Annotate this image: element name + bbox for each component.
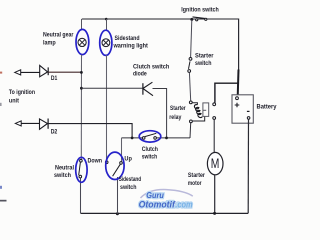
node lamp2 junction — [105, 18, 108, 21]
diode D2 — [40, 119, 49, 130]
watermark guru otomotif logo — [139, 190, 193, 210]
wire lamp1 down line — [80, 55, 82, 160]
scan mark left edge red — [0, 72, 2, 74]
highlight ellipse sidestand switch — [106, 152, 124, 179]
diode D1 — [40, 65, 49, 76]
wire lamp2 top stub — [106, 19, 108, 30]
highlight ellipse neutral switch — [76, 157, 87, 182]
scan mark left edge blue — [0, 186, 2, 189]
highlight ellipse lamp L2 — [100, 30, 112, 55]
svg-text:motor: motor — [188, 180, 202, 187]
label D1 — [51, 75, 58, 82]
svg-text:D1: D1 — [51, 75, 58, 82]
label neutral switch — [54, 165, 74, 179]
node ignition junction — [190, 18, 193, 21]
svg-text:switch: switch — [120, 184, 137, 191]
svg-text:Starter: Starter — [195, 53, 214, 60]
svg-text:lamp: lamp — [43, 39, 56, 46]
svg-text:switch: switch — [54, 172, 71, 179]
svg-text:Starter: Starter — [188, 172, 206, 179]
relay K1 core box — [203, 103, 209, 117]
wire top supply bus — [82, 18, 239, 20]
svg-text:Down: Down — [88, 158, 103, 165]
svg-text:warning light: warning light — [113, 43, 149, 50]
wire right feed down to battery — [237, 19, 240, 97]
motor M1 starter motor — [207, 152, 223, 174]
node sidestand ground junction — [116, 212, 119, 215]
svg-text:diode: diode — [133, 71, 147, 78]
label clutch switch — [142, 146, 158, 160]
svg-text:Sidestand: Sidestand — [115, 35, 140, 42]
wire relay to motor — [213, 119, 215, 152]
sidestand switch S5 — [105, 161, 122, 214]
scan mark left edge dark — [0, 200, 7, 202]
wire battery minus to ground bus — [247, 119, 249, 213]
clutch switch S3 — [142, 133, 156, 139]
svg-text:switch: switch — [142, 153, 157, 160]
node clutch diode wire junction — [80, 87, 83, 90]
label ignition switch — [181, 6, 219, 13]
label to ignition unit — [9, 89, 35, 104]
label sidestand switch — [119, 176, 142, 191]
svg-text:Guru: Guru — [146, 191, 164, 200]
svg-text:D2: D2 — [51, 129, 58, 136]
wire ground bus bottom — [81, 212, 249, 214]
wire clutch row — [121, 137, 190, 139]
svg-text:Neutral: Neutral — [55, 165, 74, 172]
label down — [88, 158, 103, 165]
label starter switch — [195, 53, 214, 67]
label starter relay — [169, 105, 186, 121]
wire D1 to neutral line — [48, 71, 81, 73]
highlight ellipse clutch switch — [139, 131, 161, 142]
node D1 junction — [80, 71, 83, 74]
node D3 clutch junction — [165, 137, 168, 140]
wire relay contact feed — [215, 83, 238, 103]
svg-text:Battery: Battery — [257, 104, 277, 111]
neutral switch S4 — [79, 159, 83, 178]
lamp L1 neutral gear lamp — [78, 38, 86, 46]
wire lamp1 top stub — [81, 19, 83, 30]
svg-text:Up: Up — [124, 156, 132, 163]
svg-text:Starter: Starter — [170, 105, 186, 112]
starter switch S2 — [188, 20, 192, 101]
label neutral gear lamp — [43, 32, 74, 47]
label clutch switch diode — [133, 64, 169, 78]
svg-text:Sidestand: Sidestand — [119, 176, 142, 183]
node motor ground junction — [213, 212, 216, 215]
relay K1 coil — [189, 101, 204, 123]
battery BT1 — [232, 95, 253, 123]
svg-text:.com: .com — [175, 200, 192, 210]
wire D2 row to corner — [48, 124, 132, 138]
svg-text:Otomotif: Otomotif — [139, 200, 176, 210]
lamp L2 sidestand warning light — [102, 39, 110, 47]
svg-text:Neutral gear: Neutral gear — [43, 32, 74, 39]
node D2 clutch junction — [131, 137, 134, 140]
relay K1 contact — [213, 103, 216, 120]
wire neutral switch to ground bus — [80, 178, 82, 213]
svg-text:Ignition switch: Ignition switch — [181, 6, 219, 13]
connector arrow to ignition unit (upper) — [15, 70, 40, 75]
scan mark left edge gray — [0, 103, 2, 106]
highlight ellipse lamp L1 — [76, 29, 89, 54]
connector arrow to ignition unit (lower) — [15, 121, 39, 126]
wire clutch diode row — [81, 87, 142, 89]
label D2 — [51, 129, 58, 136]
svg-text:switch: switch — [195, 60, 212, 67]
label up — [124, 156, 132, 163]
label sidestand warning light — [113, 35, 149, 49]
wire clutch row to relay coil — [189, 123, 192, 138]
svg-text:relay: relay — [169, 114, 181, 121]
wire motor to ground bus — [214, 175, 216, 214]
ignition switch S1 — [193, 17, 207, 21]
label battery — [257, 104, 277, 111]
wire up-contact leg — [121, 138, 123, 162]
svg-text:unit: unit — [9, 97, 20, 104]
svg-text:M: M — [211, 156, 220, 171]
wire lamp2 down line — [106, 55, 108, 161]
svg-text:To ignition: To ignition — [9, 89, 35, 96]
wire D3 output to down-leg — [153, 89, 167, 138]
clutch switch diode D3 — [143, 82, 153, 96]
svg-text:Clutch: Clutch — [142, 146, 158, 153]
label starter motor — [188, 172, 206, 187]
